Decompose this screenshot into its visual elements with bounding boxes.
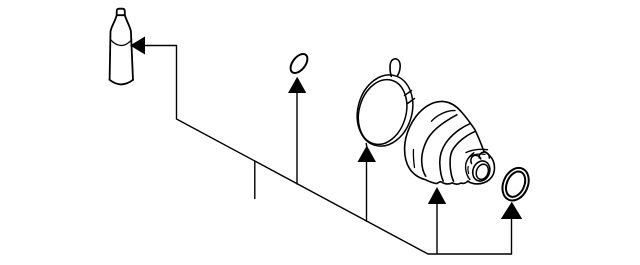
CV boot [405,101,495,184]
small clamp ring [498,164,534,205]
stem arrow 3 (boot) [436,203,438,254]
highlight conv1 [432,111,456,122]
leader line to bottle [145,46,512,255]
ridge A [422,115,457,176]
grease bottle [110,9,133,85]
stub line on diagonal [254,162,256,199]
wrinkle lines above collar [466,149,488,152]
ridge D accent [467,167,470,174]
stem arrow 4 (small ring) [511,218,513,254]
small clip ellipse [287,51,310,76]
ridge D [466,153,474,180]
arrowhead at bottle [130,37,145,55]
opening inner [474,162,490,181]
outer outline [405,101,495,184]
stem arrow 2 (boot band) [366,160,368,221]
stem arrow 1 (small clip) [296,91,298,184]
ridge C [450,132,474,181]
lobes on collar [471,155,481,163]
opening outer [470,158,493,183]
boot band (large ring with ear) [349,59,421,153]
ridge B [440,124,470,181]
big end rim accent [413,150,414,168]
